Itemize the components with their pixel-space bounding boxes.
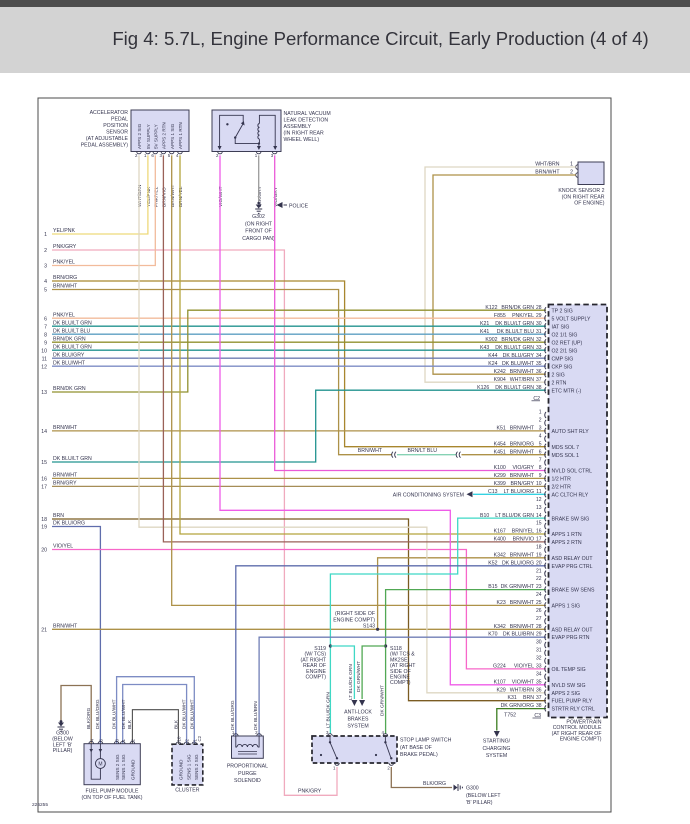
svg-text:OIL TEMP SIG: OIL TEMP SIG <box>552 667 586 673</box>
svg-text:VIO/GRY: VIO/GRY <box>512 465 534 471</box>
svg-text:SOLENOID: SOLENOID <box>234 778 261 784</box>
wire BRN/WHT knock sensor pin 2 to PCM C2 pin 36 <box>433 175 576 374</box>
knock sensor caption <box>558 188 604 207</box>
svg-text:DK BLU/LT GRN: DK BLU/LT GRN <box>495 321 534 327</box>
wire VIO/GRY NVLD pin 3 to PCM C3 pin 8 <box>275 155 546 470</box>
svg-text:ASSEMBLY: ASSEMBLY <box>284 124 312 130</box>
svg-text:BRN/LT BLU: BRN/LT BLU <box>407 448 437 454</box>
wire row 20 VIO/YEL to PCM C3 pin 33 <box>52 550 546 669</box>
svg-text:DK BLU/GRY: DK BLU/GRY <box>53 352 85 358</box>
wire DK GRN/WHT S118 branch to anti-lock brakes <box>362 646 386 699</box>
NVLD pin connectors <box>216 152 277 159</box>
NVLD caption <box>284 111 331 143</box>
svg-text:WHT/BRN: WHT/BRN <box>510 687 534 693</box>
svg-text:11: 11 <box>42 356 47 362</box>
svg-text:BRN/WHT: BRN/WHT <box>510 369 535 375</box>
svg-text:10: 10 <box>41 348 47 354</box>
svg-text:NVLD SOL CTRL: NVLD SOL CTRL <box>552 469 593 475</box>
svg-text:OF ENGINE): OF ENGINE) <box>574 201 605 207</box>
svg-text:226255: 226255 <box>32 802 48 808</box>
svg-text:BRN/GRY: BRN/GRY <box>53 481 77 487</box>
wire row 16 BRN/WHT to PCM C3 pin 9 <box>52 477 546 479</box>
purge solenoid caption <box>227 764 268 785</box>
svg-text:F855: F855 <box>494 313 506 319</box>
svg-text:BRN/DK GRN: BRN/DK GRN <box>53 386 86 392</box>
wire row 7 DK BLU/LT GRN to PCM C2 pin 30 <box>52 325 546 327</box>
svg-text:14: 14 <box>536 513 542 519</box>
POLICE arrow label <box>277 202 309 209</box>
svg-text:38: 38 <box>536 385 542 391</box>
wire DK GRN/ORG PCM C3 pin 38 to starting-charging system <box>497 709 546 731</box>
wire DK BLU/WHT fuel pump pin 3 to cluster pin 1 <box>117 677 195 745</box>
svg-text:PNK/GRY: PNK/GRY <box>298 788 322 794</box>
PCM C2 pin rows <box>477 305 591 395</box>
svg-text:DK BLU/BRN: DK BLU/BRN <box>253 701 259 730</box>
svg-text:BLK/ORG: BLK/ORG <box>423 781 446 787</box>
svg-text:YEL/PNK: YEL/PNK <box>53 228 75 234</box>
wire BRN/YEL APPS pin 4 to PCM C3 pin 16 <box>180 155 546 534</box>
svg-text:EVAP PRG CTRL: EVAP PRG CTRL <box>552 564 593 570</box>
svg-text:PROPORTIONAL: PROPORTIONAL <box>227 764 268 770</box>
svg-text:DK BLU/LT BLU: DK BLU/LT BLU <box>497 329 535 335</box>
knock sensor 2 box <box>576 162 604 185</box>
svg-text:33: 33 <box>536 345 542 351</box>
svg-text:17: 17 <box>536 537 542 543</box>
svg-text:K31: K31 <box>508 695 517 701</box>
wire LT BLU/DK GRN S119 branch to anti-lock brakes <box>330 646 354 699</box>
svg-text:PEDAL ASSEMBLY): PEDAL ASSEMBLY) <box>81 143 129 149</box>
svg-text:(ON RIGHT REAR: (ON RIGHT REAR <box>562 194 605 200</box>
svg-text:KNOCK SENSOR 2: KNOCK SENSOR 2 <box>558 188 604 194</box>
svg-text:22: 22 <box>536 576 542 582</box>
svg-text:30: 30 <box>536 640 542 646</box>
cluster caption <box>175 788 199 794</box>
PCM C3 connector label <box>533 713 542 719</box>
wire row 6 PNK/YEL to PCM C2 pin 29 <box>52 317 546 319</box>
starting charging system caption <box>483 739 511 760</box>
svg-text:NATURAL VACUUM: NATURAL VACUUM <box>284 111 331 117</box>
svg-text:5V SUPPLY: 5V SUPPLY <box>146 124 151 149</box>
svg-text:CKP SIG: CKP SIG <box>552 364 573 370</box>
svg-text:28: 28 <box>536 305 542 311</box>
svg-text:PEDAL: PEDAL <box>111 117 128 123</box>
svg-text:APPS 2 RTN: APPS 2 RTN <box>552 540 582 546</box>
svg-text:K29: K29 <box>497 687 506 693</box>
wire row 17 BRN/GRY to PCM C3 pin 10 <box>52 485 546 487</box>
svg-text:GROUND: GROUND <box>131 759 136 780</box>
svg-text:5: 5 <box>44 288 47 294</box>
fuel pump wire labels <box>86 699 133 729</box>
svg-text:MDS SOL 1: MDS SOL 1 <box>552 453 580 459</box>
svg-text:20: 20 <box>536 560 542 566</box>
svg-text:26: 26 <box>536 608 542 614</box>
svg-text:2 RTN: 2 RTN <box>552 380 567 386</box>
svg-text:DK GRN/WHT: DK GRN/WHT <box>501 584 535 590</box>
APPS wire labels <box>137 184 184 207</box>
svg-text:K70: K70 <box>488 632 497 638</box>
svg-text:BRN/WHT: BRN/WHT <box>510 600 535 606</box>
svg-text:BRN/WHT: BRN/WHT <box>510 449 535 455</box>
svg-text:5: 5 <box>539 441 542 447</box>
wire segment BRN/LT BLU between inline connectors <box>397 454 457 456</box>
wire row 18 BRN to PCM C3 pin 37 <box>52 519 546 701</box>
svg-text:1/2 HTR: 1/2 HTR <box>552 477 572 483</box>
svg-text:APPS 2 SIG: APPS 2 SIG <box>552 691 581 697</box>
svg-text:(RIGHT SIDE OF: (RIGHT SIDE OF <box>335 611 375 617</box>
PNK/GRY wire label <box>298 788 322 794</box>
svg-text:COMPT): COMPT) <box>390 680 411 686</box>
svg-text:BRN/WHT: BRN/WHT <box>510 552 535 558</box>
svg-text:C13: C13 <box>488 489 498 495</box>
svg-text:SENS 2 SIG: SENS 2 SIG <box>194 754 199 780</box>
proportional purge solenoid box <box>232 730 264 758</box>
svg-text:15: 15 <box>536 521 542 527</box>
svg-text:24: 24 <box>536 592 542 598</box>
svg-text:13: 13 <box>41 390 47 396</box>
wire VIO/WHT NVLD pin 2 to PCM C3 pin 35 <box>220 155 546 684</box>
svg-text:DK BLU/WHT: DK BLU/WHT <box>182 699 188 729</box>
svg-text:PNK/YEL: PNK/YEL <box>154 186 160 207</box>
svg-text:COMPT): COMPT) <box>306 675 327 681</box>
wire row 2 PNK/GRY to stop lamp switch <box>52 250 337 795</box>
wire WHT/BRN knock sensor pin 1 to PCM C2 pin 37 <box>425 167 576 382</box>
diagram number <box>32 802 48 808</box>
svg-text:AIR CONDITIONING SYSTEM: AIR CONDITIONING SYSTEM <box>393 493 464 499</box>
svg-text:21: 21 <box>41 628 47 634</box>
svg-text:APPS 1 RTN: APPS 1 RTN <box>178 122 183 149</box>
svg-text:K126: K126 <box>477 385 489 391</box>
svg-text:DK BLU/GRY: DK BLU/GRY <box>503 353 535 359</box>
svg-text:CLUSTER: CLUSTER <box>175 788 199 794</box>
svg-text:BRN/DK GRN: BRN/DK GRN <box>53 336 86 342</box>
wire BLK/GRY NVLD to G302 <box>258 155 260 203</box>
svg-text:17: 17 <box>41 485 47 491</box>
svg-text:1: 1 <box>539 410 542 416</box>
wire WHT/BRN APPS pin 2 to PCM C3 pin 36 <box>139 155 546 692</box>
svg-text:LT BLU/DK GRN: LT BLU/DK GRN <box>325 692 331 728</box>
fuel pump module caption <box>81 789 142 802</box>
inline connector pair on MDS SOL 1 circuit <box>392 452 461 458</box>
svg-text:9: 9 <box>539 473 542 479</box>
svg-text:(BELOW LEFT: (BELOW LEFT <box>466 793 501 799</box>
svg-text:BRN/WHT: BRN/WHT <box>53 425 78 431</box>
svg-text:DK BLU/LT GRN: DK BLU/LT GRN <box>495 345 534 351</box>
svg-text:37: 37 <box>536 377 542 383</box>
svg-text:PNK/YEL: PNK/YEL <box>53 260 75 266</box>
svg-text:14: 14 <box>41 429 47 435</box>
svg-text:APPS 2 SIG: APPS 2 SIG <box>137 123 142 149</box>
svg-text:DK GRN/WHT: DK GRN/WHT <box>379 685 385 716</box>
svg-text:DK BLU/WHT: DK BLU/WHT <box>189 699 195 729</box>
svg-text:PURGE: PURGE <box>238 771 257 777</box>
svg-text:BRN/WHT: BRN/WHT <box>170 185 176 207</box>
svg-text:ANTI-LOCK: ANTI-LOCK <box>344 710 372 716</box>
PCM caption <box>552 720 602 743</box>
svg-text:K454: K454 <box>494 441 506 447</box>
svg-text:9: 9 <box>44 340 47 346</box>
svg-text:K107: K107 <box>494 679 506 685</box>
svg-text:BRN/DK GRN: BRN/DK GRN <box>501 305 534 311</box>
svg-text:DK BLU/ORG: DK BLU/ORG <box>230 700 236 730</box>
svg-text:ASD RELAY OUT: ASD RELAY OUT <box>552 627 594 633</box>
svg-text:1: 1 <box>44 232 47 238</box>
anti-lock brakes system caption <box>344 710 372 730</box>
svg-text:10: 10 <box>177 736 182 741</box>
svg-text:LEAK DETECTION: LEAK DETECTION <box>284 118 329 124</box>
svg-text:BRN/WHT: BRN/WHT <box>510 624 535 630</box>
svg-text:34: 34 <box>536 353 542 359</box>
svg-text:AUTO SHT RLY: AUTO SHT RLY <box>552 429 590 435</box>
inline connector segment labels <box>358 448 437 454</box>
svg-text:4: 4 <box>539 433 542 439</box>
svg-text:BRN/ORG: BRN/ORG <box>510 441 534 447</box>
svg-text:K399: K399 <box>494 481 506 487</box>
svg-text:DK BLU/BRN: DK BLU/BRN <box>503 632 534 638</box>
wire row 9 BRN/DK GRN to PCM C2 pin 32 <box>52 341 546 343</box>
svg-text:10: 10 <box>536 481 542 487</box>
svg-text:K904: K904 <box>494 377 506 383</box>
svg-text:DK BLU/LT GRN: DK BLU/LT GRN <box>53 456 92 462</box>
svg-text:BRN/VIO: BRN/VIO <box>513 537 534 543</box>
svg-text:DK GRN/ORG: DK GRN/ORG <box>501 703 534 709</box>
svg-text:VIO/YEL: VIO/YEL <box>53 544 73 550</box>
svg-text:PNK/YEL: PNK/YEL <box>53 312 75 318</box>
svg-text:K122: K122 <box>485 305 497 311</box>
PCM T752 circuit label <box>504 712 516 718</box>
ground G300 below left B pillar <box>58 720 65 731</box>
svg-text:BRN/YEL: BRN/YEL <box>178 186 184 207</box>
svg-text:K100: K100 <box>494 465 506 471</box>
svg-text:31: 31 <box>536 329 542 335</box>
svg-text:K167: K167 <box>494 529 506 535</box>
svg-text:WHT/BRN: WHT/BRN <box>510 377 534 383</box>
svg-text:27: 27 <box>536 616 542 622</box>
svg-text:YEL/PNK: YEL/PNK <box>146 186 152 207</box>
accelerator pedal position sensor box <box>131 110 189 158</box>
starting charging system arrow <box>494 731 500 737</box>
svg-text:BRN/DK GRN: BRN/DK GRN <box>501 337 534 343</box>
svg-text:BRN/ORG: BRN/ORG <box>53 275 77 281</box>
wire K342 BRN/WHT splice S143 branch to PCM C3 pin 19 <box>378 558 546 630</box>
svg-text:35: 35 <box>536 679 542 685</box>
svg-text:CARGO PAN): CARGO PAN) <box>242 236 275 242</box>
wire LT BLU/ORG AC clutch relay PCM C3 pin 11 <box>473 493 546 495</box>
svg-text:35: 35 <box>536 361 542 367</box>
svg-text:T752: T752 <box>504 712 516 718</box>
svg-text:8: 8 <box>539 465 542 471</box>
svg-text:BLK: BLK <box>173 719 179 729</box>
svg-text:BRAKES: BRAKES <box>347 717 369 723</box>
svg-text:DK BLU/WHT: DK BLU/WHT <box>502 361 535 367</box>
svg-text:36: 36 <box>536 687 542 693</box>
header gray band <box>0 7 690 73</box>
stop lamp switch caption <box>400 738 452 759</box>
svg-text:11: 11 <box>536 489 541 495</box>
svg-text:2 SIG: 2 SIG <box>552 372 565 378</box>
svg-text:8: 8 <box>44 332 47 338</box>
NVLD wire labels <box>218 185 279 207</box>
svg-text:BRN: BRN <box>53 513 64 519</box>
cluster wire labels <box>173 699 195 729</box>
svg-text:3: 3 <box>539 426 542 432</box>
svg-text:WHT/BRN: WHT/BRN <box>137 184 143 207</box>
svg-text:SYSTEM: SYSTEM <box>347 724 368 730</box>
wire BRN/WHT APPS pin 5 to PCM C3 pin 25 <box>172 155 546 605</box>
svg-text:SENS 1 SIG: SENS 1 SIG <box>121 754 126 780</box>
S118 caption <box>390 646 416 686</box>
svg-text:3: 3 <box>44 264 47 270</box>
svg-text:25: 25 <box>536 600 542 606</box>
svg-text:MDS SOL 7: MDS SOL 7 <box>552 445 580 451</box>
svg-text:32: 32 <box>536 337 542 343</box>
svg-text:K400: K400 <box>494 537 506 543</box>
svg-text:M: M <box>98 762 102 768</box>
svg-text:AC CLTCH RLY: AC CLTCH RLY <box>552 493 589 499</box>
svg-text:K902: K902 <box>485 337 497 343</box>
svg-text:DK BLU/LT BLU: DK BLU/LT BLU <box>53 328 91 334</box>
svg-text:K51: K51 <box>497 426 506 432</box>
svg-text:VIO/WHT: VIO/WHT <box>218 186 224 207</box>
svg-text:C2: C2 <box>197 735 202 741</box>
svg-text:IAT SIG: IAT SIG <box>552 324 570 330</box>
svg-text:(ON TOP OF FUEL TANK): (ON TOP OF FUEL TANK) <box>81 795 142 801</box>
ground G302 <box>255 202 262 214</box>
S143 caption <box>333 611 375 630</box>
svg-text:S143: S143 <box>363 624 375 630</box>
svg-text:'B' PILLAR): 'B' PILLAR) <box>466 800 493 806</box>
wire row 19 DK BLU/ORG to fuel pump module pin 5 <box>52 527 100 744</box>
svg-text:VIO/WHT: VIO/WHT <box>512 679 535 685</box>
splice S119 <box>329 644 332 647</box>
svg-text:STARTING/: STARTING/ <box>483 739 511 745</box>
svg-text:BRN/WHT: BRN/WHT <box>510 426 535 432</box>
fuel pump module box <box>84 739 140 785</box>
svg-text:DK BLU/ORG: DK BLU/ORG <box>53 521 85 527</box>
svg-text:19: 19 <box>536 552 542 558</box>
wire BLK/ORG stop lamp switch to ground G300 <box>391 767 452 788</box>
svg-text:18: 18 <box>41 517 47 523</box>
splice S143 <box>376 628 379 631</box>
svg-text:BRN/GRY: BRN/GRY <box>510 481 534 487</box>
G302 caption <box>242 214 275 242</box>
svg-text:POSITION: POSITION <box>103 123 128 129</box>
svg-text:(AT BASE OF: (AT BASE OF <box>400 745 432 751</box>
svg-text:K41: K41 <box>480 329 489 335</box>
svg-text:BRN/YEL: BRN/YEL <box>512 529 534 535</box>
svg-text:31: 31 <box>536 648 542 654</box>
BLK/ORG wire label <box>423 781 446 787</box>
svg-text:16: 16 <box>41 477 47 483</box>
svg-text:ENGINE COMPT): ENGINE COMPT) <box>560 737 602 743</box>
svg-text:DK BLU/LT GRN: DK BLU/LT GRN <box>53 344 92 350</box>
svg-text:WHEEL WELL): WHEEL WELL) <box>284 137 320 143</box>
wire row 8 DK BLU/LT BLU to PCM C2 pin 31 <box>52 333 546 335</box>
wire row 3 PNK/YEL to APPS pin 6 <box>52 155 155 265</box>
S119 caption <box>301 646 327 681</box>
G300 stop lamp caption <box>466 786 501 807</box>
svg-text:19: 19 <box>41 525 47 531</box>
wire segment BRN/WHT to PCM C3 pin 6 <box>462 454 547 456</box>
svg-text:Fig 4: 5.7L, Engine Performanc: Fig 4: 5.7L, Engine Performance Circuit,… <box>112 28 648 49</box>
powertrain control module box <box>549 305 608 718</box>
svg-text:4: 4 <box>44 279 47 285</box>
svg-text:K44: K44 <box>488 353 497 359</box>
wire row 11 DK BLU/GRY to PCM C2 pin 34 <box>52 357 546 359</box>
svg-text:B10: B10 <box>480 513 489 519</box>
svg-text:29: 29 <box>536 632 542 638</box>
svg-text:(AT ADJUSTABLE: (AT ADJUSTABLE <box>86 136 129 142</box>
wire DK BLU/BRN PCM C3 pin 29 to purge solenoid pin 2 <box>259 637 546 736</box>
svg-text:2: 2 <box>44 248 47 254</box>
svg-text:DK BLU/ORG: DK BLU/ORG <box>502 560 534 566</box>
svg-text:(ON RIGHT: (ON RIGHT <box>245 221 273 227</box>
header dark top bar <box>0 0 690 7</box>
svg-text:30: 30 <box>536 321 542 327</box>
svg-text:32: 32 <box>536 656 542 662</box>
svg-text:36: 36 <box>536 369 542 375</box>
svg-text:6: 6 <box>539 449 542 455</box>
svg-text:12: 12 <box>41 364 47 370</box>
svg-text:K43: K43 <box>480 345 489 351</box>
svg-text:7: 7 <box>44 324 47 330</box>
svg-text:BRAKE SW SIG: BRAKE SW SIG <box>552 516 590 522</box>
svg-text:O2 1/1 SIG: O2 1/1 SIG <box>552 332 578 338</box>
svg-text:2: 2 <box>539 418 542 424</box>
svg-text:LT BLU/ORG: LT BLU/ORG <box>504 489 534 495</box>
svg-text:FRONT OF: FRONT OF <box>245 229 271 235</box>
svg-text:K52: K52 <box>488 560 497 566</box>
svg-text:28: 28 <box>536 624 542 630</box>
wire LT BLU/DK GRN PCM C3 pin 14 to splice S119 <box>330 518 546 734</box>
PCM C2 connector label <box>532 396 541 402</box>
svg-text:NVLD SW SIG: NVLD SW SIG <box>552 683 586 689</box>
figure title <box>112 28 648 49</box>
svg-text:TP 2 SIG: TP 2 SIG <box>552 308 573 314</box>
svg-text:K342: K342 <box>494 624 506 630</box>
svg-text:BRN/WHT: BRN/WHT <box>53 624 78 630</box>
svg-text:23: 23 <box>536 584 542 590</box>
wire row 15 DK BLU/LT GRN to PCM C2 pin 38 <box>52 390 546 462</box>
svg-text:STOP LAMP SWITCH: STOP LAMP SWITCH <box>400 738 452 744</box>
svg-text:FUEL PUMP RLY: FUEL PUMP RLY <box>552 699 593 705</box>
svg-text:5V SUPPLY: 5V SUPPLY <box>154 124 159 149</box>
svg-text:DK BLU/WHT: DK BLU/WHT <box>121 699 127 729</box>
svg-text:G300: G300 <box>466 786 479 792</box>
svg-text:ASD RELAY OUT: ASD RELAY OUT <box>552 556 594 562</box>
anti-lock brakes system arrows <box>351 700 365 706</box>
PCM C3 pin rows <box>480 410 595 713</box>
svg-text:G302: G302 <box>252 214 265 220</box>
svg-text:DK BLU/LT GRN: DK BLU/LT GRN <box>53 320 92 326</box>
svg-text:APPS 1 SIG: APPS 1 SIG <box>170 123 175 149</box>
rotated labels near ABS and stop lamp switch <box>325 661 385 728</box>
splice S118 <box>384 644 387 647</box>
svg-text:5 VOLT SUPPLY: 5 VOLT SUPPLY <box>552 316 591 322</box>
diagram border frame <box>38 98 611 812</box>
svg-text:12: 12 <box>536 497 542 503</box>
svg-text:CMP SIG: CMP SIG <box>552 356 574 362</box>
svg-text:LT BLU/DK GRN: LT BLU/DK GRN <box>348 664 354 700</box>
svg-text:BLK/ORG: BLK/ORG <box>86 707 92 729</box>
ground G300 stop lamp switch <box>454 784 463 791</box>
svg-text:VIO/YEL: VIO/YEL <box>514 663 534 669</box>
wire row 21 BRN/WHT through splice S143 to PCM C3 pin 28 <box>52 628 546 630</box>
svg-text:13: 13 <box>536 505 542 511</box>
cluster box <box>172 735 203 785</box>
svg-text:DK BLU/WHT: DK BLU/WHT <box>53 360 86 366</box>
svg-text:2/2 HTR: 2/2 HTR <box>552 485 572 491</box>
svg-text:BRN/WHT: BRN/WHT <box>358 448 383 454</box>
